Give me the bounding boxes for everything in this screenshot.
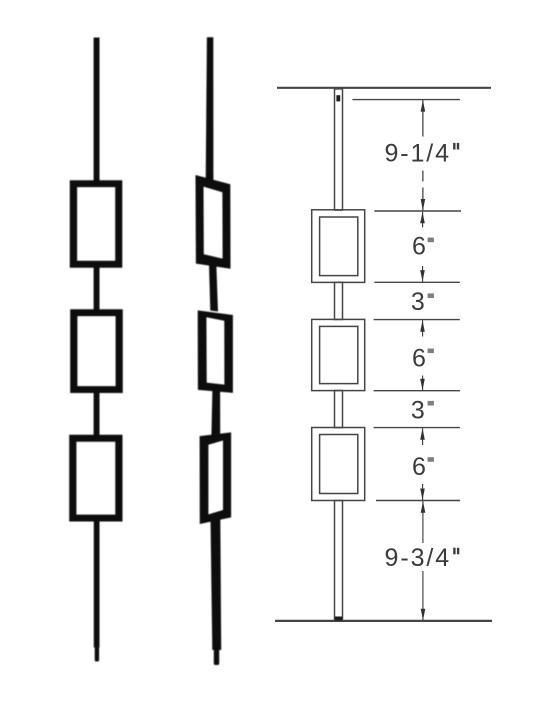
middle baluster bottom rod bbox=[211, 517, 222, 651]
shaft 6in no2 lower bbox=[422, 376, 424, 391]
inch mark after 9-1/4 bbox=[453, 143, 455, 150]
arrow down above line G bbox=[420, 489, 425, 501]
middle baluster bottom pin bbox=[214, 649, 219, 665]
svg-text:6: 6 bbox=[412, 233, 426, 261]
diagram rod segment between rect1-rect2 bbox=[335, 282, 343, 319]
shaft 6in no3 upper bbox=[422, 428, 424, 445]
svg-text:6: 6 bbox=[412, 345, 426, 373]
middle baluster rod between rect1 and rect2 bbox=[209, 265, 218, 312]
dark foot of diagram rod at floor bbox=[335, 617, 342, 621]
middle baluster rectangle 3 bbox=[200, 432, 232, 524]
arrow up below line G bbox=[421, 501, 426, 513]
left baluster rectangle 2 bbox=[70, 309, 123, 393]
section boundary line D (top of rect2) bbox=[374, 319, 460, 321]
arrow up below line F bbox=[420, 428, 425, 440]
arrow up at line A bbox=[421, 100, 426, 112]
shaft 6in no2 upper bbox=[422, 320, 424, 336]
shaft 6in no3 lower bbox=[422, 484, 424, 500]
diagram rectangle 1 inner bbox=[320, 217, 358, 276]
svg-text:9-1/4: 9-1/4 bbox=[384, 139, 450, 167]
dimension arrowheads bbox=[420, 100, 425, 620]
fitting blob at top of diagram rod bbox=[336, 95, 340, 101]
left baluster rod between rect2 and rect3 bbox=[94, 392, 100, 436]
middle baluster rectangle 1 bbox=[196, 175, 231, 269]
section boundary line B (top of rect1) bbox=[374, 210, 461, 212]
left baluster rectangle 3 bbox=[69, 435, 122, 522]
left baluster bottom rod bbox=[94, 521, 100, 648]
inch mark after 9-3/4 bbox=[453, 548, 455, 555]
diagram rectangle 2 inner bbox=[320, 326, 358, 383]
arrow up below line B bbox=[420, 212, 425, 224]
rail line (top) bbox=[277, 87, 491, 89]
left baluster rectangle 1 bbox=[70, 180, 123, 268]
section boundary line G (bottom of rect3) bbox=[376, 500, 460, 502]
left baluster top rod bbox=[94, 38, 100, 182]
left baluster bottom pin bbox=[95, 645, 99, 662]
svg-text:3: 3 bbox=[411, 397, 425, 425]
left baluster rod between rect1 and rect2 bbox=[94, 267, 100, 311]
inch marks bbox=[453, 143, 459, 554]
arrow down at line B bbox=[421, 199, 426, 211]
diagram rectangle 3 inner bbox=[320, 435, 358, 494]
arrow down above floor line bbox=[421, 609, 426, 621]
dimension line shafts bbox=[422, 100, 425, 620]
section boundary line A (top of 9-1/4) bbox=[352, 99, 460, 101]
shaft 9-1/4 lower bbox=[422, 171, 424, 182]
svg-text:3: 3 bbox=[411, 288, 425, 316]
arrow up below line D bbox=[420, 320, 425, 332]
dimension diagram bbox=[275, 88, 492, 621]
middle baluster rectangle 2 bbox=[198, 310, 233, 393]
shaft 6in no1 upper bbox=[422, 212, 424, 228]
inch mark after 6 no3 bbox=[428, 457, 434, 462]
shaft 6in no1 lower bbox=[422, 266, 424, 282]
shaft 9-1/4 upper bbox=[422, 100, 424, 136]
middle baluster (angled view photo) bbox=[196, 37, 233, 665]
section boundary line C (bottom of rect1) bbox=[374, 281, 460, 283]
section boundary line E (bottom of rect2) bbox=[374, 390, 460, 392]
inch mark after 6 no1 bbox=[428, 238, 434, 243]
diagram rod segment top bbox=[335, 89, 343, 210]
diagram rectangle 2 outer bbox=[312, 319, 365, 390]
left baluster (front view photo) bbox=[69, 38, 123, 662]
inch mark after 3 no1 bbox=[428, 293, 434, 298]
arrow down above line E bbox=[420, 379, 425, 391]
svg-text:9-3/4: 9-3/4 bbox=[385, 544, 451, 572]
floor line (bottom) bbox=[275, 620, 492, 622]
svg-text:6: 6 bbox=[412, 453, 426, 481]
diagram rod segment between rect2-rect3 bbox=[335, 391, 343, 428]
diagram rectangle 3 outer bbox=[312, 428, 365, 501]
diagram rod segment bottom bbox=[335, 501, 343, 621]
arrow down above line C bbox=[420, 270, 425, 282]
section boundary line F (top of rect3) bbox=[374, 427, 460, 429]
inch mark after 6 no2 bbox=[428, 349, 434, 354]
dimension texts bbox=[384, 139, 451, 572]
diagram rectangle 1 outer bbox=[312, 210, 365, 283]
shaft 9-3/4 upper bbox=[422, 501, 424, 543]
middle baluster rod between rect2 and rect3 bbox=[211, 390, 220, 437]
shaft 9-3/4 lower bbox=[422, 571, 424, 620]
middle baluster top rod bbox=[206, 37, 214, 182]
inch mark after 3 no2 bbox=[428, 401, 434, 406]
